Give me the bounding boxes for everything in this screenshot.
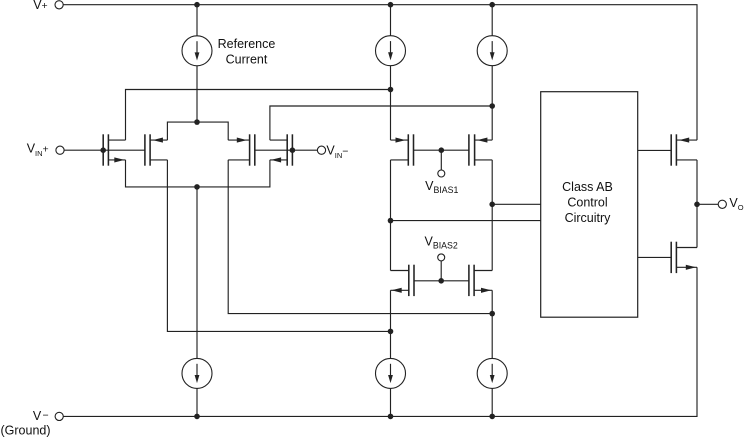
svg-text:Reference: Reference — [218, 37, 276, 51]
wire M8 source drop — [491, 290, 493, 358]
node VBIAS1 gate junction — [439, 147, 445, 153]
node M3-drain/M8-source junction — [489, 311, 495, 317]
wire left column to M5 — [390, 66, 392, 140]
wire M2 drain bus — [167, 160, 390, 332]
transistor M7 — [391, 265, 415, 296]
svg-text:Circuitry: Circuitry — [565, 211, 612, 225]
wire VBIAS1 stub — [440, 150, 442, 170]
node output junction — [694, 202, 700, 208]
svg-text:VIN+: VIN+ — [27, 142, 49, 158]
wire to Class AB box (lower) — [391, 220, 541, 222]
node bottom-rail/I4 junction — [388, 414, 394, 420]
wire V- rail — [63, 267, 697, 416]
node M1-drain/left-column junction — [388, 87, 394, 93]
svg-text:VBIAS2: VBIAS2 — [425, 235, 458, 251]
node bottom tail junction — [194, 184, 200, 190]
current source I2 — [477, 36, 507, 66]
node M2-drain/M7-source junction — [388, 329, 394, 335]
svg-text:(Ground): (Ground) — [1, 423, 51, 437]
wire VBIAS2 stub — [440, 261, 442, 281]
wire output node to VO — [697, 203, 718, 205]
svg-text:VO: VO — [729, 196, 743, 212]
transistor M9 — [671, 134, 697, 165]
wire M7 source drop — [390, 290, 392, 358]
transistor M3 — [228, 134, 255, 165]
node top-rail/ref junction — [194, 2, 200, 8]
svg-text:VBIAS1: VBIAS1 — [425, 179, 458, 195]
wire M3 drain bus — [228, 160, 492, 314]
svg-text:VIN−: VIN− — [326, 143, 348, 160]
wire box to M10 gate — [638, 256, 672, 258]
current source I3 — [182, 358, 212, 388]
terminal VIN+ — [27, 142, 64, 158]
wire VIN+ gate bus — [64, 149, 145, 151]
wire tail sink drop — [196, 187, 198, 359]
transistor M6 — [469, 134, 492, 165]
wire M4 drain bus — [270, 106, 492, 140]
terminal V+ — [33, 0, 63, 12]
wire M5 source drop — [390, 160, 392, 271]
wire I4 to rail — [390, 388, 392, 416]
svg-text:Control: Control — [567, 195, 607, 209]
current source I-REF — [182, 36, 212, 66]
wire right column to M6 — [491, 66, 493, 140]
transistor M4 — [270, 134, 293, 165]
wire ref to input tail — [196, 66, 198, 122]
wire M5-M6 gate bus — [414, 149, 469, 151]
terminal VO — [718, 196, 744, 212]
svg-text:V+: V+ — [33, 0, 47, 12]
wire box to M9 gate — [638, 149, 672, 151]
label Reference Current — [218, 37, 276, 67]
wire M6 source drop — [491, 160, 493, 271]
wire I5 to rail — [491, 388, 493, 416]
wire top tail (M2/M3 sources) — [167, 122, 228, 140]
node top-rail/left-column junction — [388, 2, 394, 8]
node bottom-rail/I5 junction — [489, 414, 495, 420]
wire M7-M8 gate bus — [414, 280, 469, 282]
svg-text:V−: V− — [33, 409, 49, 423]
svg-text:Class AB: Class AB — [562, 180, 613, 194]
transistor M2 — [145, 134, 168, 165]
node top tail junction — [194, 119, 200, 125]
block Class AB Control Circuitry — [541, 92, 638, 318]
wire bottom tail (M1/M4 sources) — [126, 160, 270, 187]
wire I3 to rail — [196, 388, 198, 416]
wire ref-current drop — [196, 5, 198, 36]
transistor M8 — [469, 265, 492, 296]
wire M9 drain to output node — [696, 160, 698, 248]
node M4 gate junction — [290, 147, 296, 153]
transistor M1 — [103, 134, 125, 165]
node left-column/box junction — [388, 218, 394, 224]
wire right column drop — [491, 5, 493, 36]
wire left column drop — [390, 5, 392, 36]
wire M1 drain bus — [126, 90, 391, 141]
node bottom-rail/I3 junction — [194, 414, 200, 420]
terminal V- — [1, 409, 64, 437]
transistor M5 — [391, 134, 414, 165]
transistor M10 — [671, 242, 697, 273]
node M1 gate junction — [100, 147, 106, 153]
current source I1 — [376, 36, 406, 66]
node M4-drain/right-column junction — [489, 103, 495, 109]
svg-text:Current: Current — [226, 52, 268, 66]
terminal VBIAS1 — [425, 170, 458, 195]
terminal VBIAS2 — [425, 235, 458, 261]
current source I4 — [376, 358, 406, 388]
wire V+ rail — [63, 5, 697, 140]
node top-rail/right-column junction — [489, 2, 495, 8]
node right-column/box junction — [489, 202, 495, 208]
current source I5 — [477, 358, 507, 388]
wire to Class AB box (upper) — [492, 203, 541, 205]
terminal VIN- — [317, 143, 348, 160]
node VBIAS2 gate junction — [438, 278, 444, 284]
wire VIN- gate bus — [255, 149, 318, 151]
